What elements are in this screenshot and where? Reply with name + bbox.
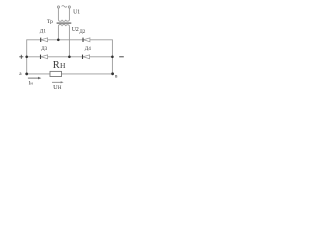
wire bottom (node a to node v) [27, 73, 113, 75]
svg-text:U2: U2 [72, 27, 79, 33]
transformer Tr primary terminal left [57, 6, 59, 8]
svg-text:Д4: Д4 [85, 46, 92, 52]
transformer Tr secondary winding U2 [58, 24, 69, 26]
svg-text:а: а [19, 71, 22, 77]
junction row2 / secondary right [68, 56, 71, 59]
wire bridge row 2 [27, 56, 113, 58]
junction row2 / right rail [111, 56, 114, 59]
current arrow In [28, 77, 41, 80]
transformer Tr primary terminal right [68, 6, 70, 8]
junction row2 / left rail [25, 56, 28, 59]
junction row1 / secondary left [57, 39, 60, 42]
node a junction [25, 73, 28, 76]
AC tilde mark [62, 6, 67, 8]
diode D1 [41, 38, 48, 42]
wire left rail [26, 39, 28, 74]
wire right rail [111, 39, 113, 73]
transformer core [57, 22, 72, 24]
svg-text:UН: UН [53, 84, 62, 91]
plus sign [19, 55, 23, 59]
svg-text:U1: U1 [73, 9, 80, 15]
voltage arrow Un [52, 81, 64, 83]
node v junction [111, 72, 114, 75]
svg-text:Тр: Тр [47, 19, 53, 25]
diode D2 [83, 38, 90, 42]
svg-text:Iн: Iн [29, 81, 34, 87]
svg-text:Д1: Д1 [40, 29, 47, 35]
resistor Rn [50, 71, 62, 76]
diode D4 [83, 55, 90, 59]
svg-text:Д2: Д2 [79, 29, 86, 35]
wire secondary left lead [57, 26, 59, 40]
svg-text:Д3: Д3 [41, 46, 48, 52]
minus sign [119, 56, 124, 58]
transformer Tr primary winding U1 [58, 8, 69, 21]
svg-text:RН: RН [53, 60, 66, 71]
svg-text:в: в [115, 73, 118, 79]
wire bridge row 1 [27, 39, 113, 41]
diode D3 [41, 55, 48, 59]
wire secondary right lead (crosses row 1) [68, 26, 70, 57]
